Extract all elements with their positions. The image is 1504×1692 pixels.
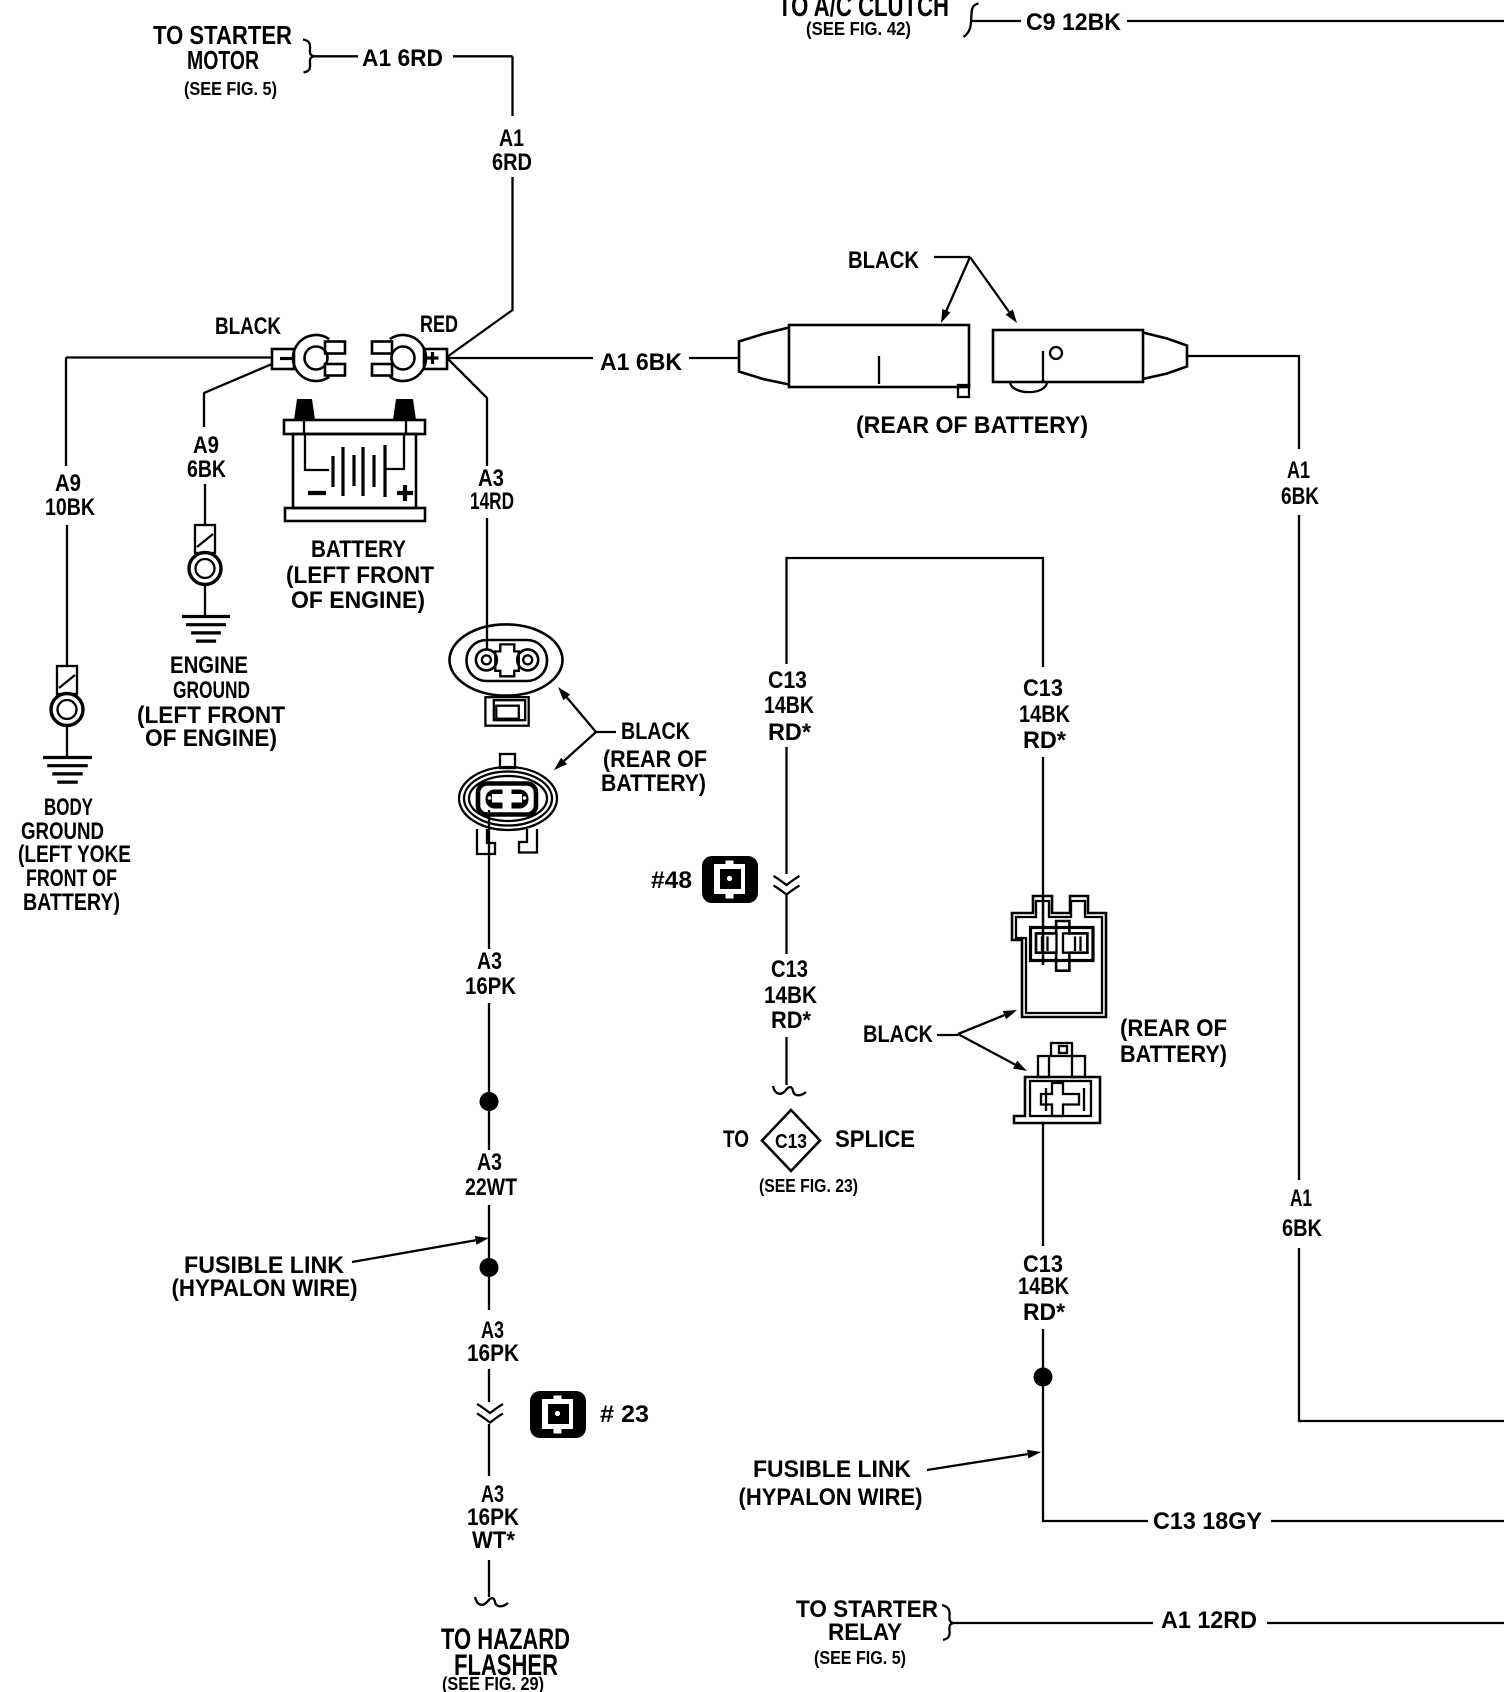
label (REAR OF BATTERY) top	[856, 412, 1088, 439]
oval connector male (rear of battery)	[459, 754, 557, 854]
label BODY GROUND (LEFT YOKE FRONT OF BATTERY)	[18, 794, 131, 916]
wire A3 16PK	[488, 810, 490, 1150]
ground engine	[182, 617, 230, 642]
ring terminal body ground	[51, 666, 83, 726]
svg-text:(HYPALON WIRE): (HYPALON WIRE)	[172, 1275, 358, 1302]
label A1 6BK	[600, 349, 683, 376]
svg-text:(SEE FIG. 42): (SEE FIG. 42)	[806, 19, 911, 39]
wire C13 right vertical	[1042, 757, 1044, 965]
label A3 16PK WT*	[467, 1481, 520, 1554]
label C9 12BK	[1026, 9, 1122, 36]
svg-text:SPLICE: SPLICE	[835, 1126, 915, 1153]
junction splice dot A3	[480, 1092, 499, 1111]
wire into oval connector	[486, 560, 488, 650]
svg-text:BODY: BODY	[44, 794, 93, 821]
svg-text:FRONT OF: FRONT OF	[26, 865, 117, 892]
label A1 6BK right lower	[1282, 1185, 1323, 1242]
label BATTERY (LEFT FRONT OF ENGINE)	[286, 536, 434, 614]
svg-text:ENGINE: ENGINE	[170, 652, 248, 679]
svg-text:BLACK: BLACK	[215, 313, 282, 340]
svg-text:RD*: RD*	[768, 719, 812, 746]
wire to hazard flasher	[488, 1560, 490, 1597]
svg-text:BATTERY: BATTERY	[311, 536, 406, 563]
label A3 16PK	[465, 948, 517, 1000]
battery negative post	[393, 399, 416, 420]
svg-text:A9: A9	[55, 470, 81, 497]
svg-text:C9 12BK: C9 12BK	[1026, 9, 1122, 36]
svg-text:A1 12RD: A1 12RD	[1161, 1607, 1257, 1634]
svg-text:14BK: 14BK	[1019, 701, 1071, 728]
svg-text:(REAR OF: (REAR OF	[603, 746, 707, 773]
wire break chevrons C13	[774, 876, 800, 895]
svg-text:14BK: 14BK	[764, 692, 815, 719]
label A1 6BK right upper	[1281, 457, 1320, 510]
junction splice dot fusible link	[480, 1258, 499, 1277]
battery positive post	[294, 399, 315, 420]
svg-text:A3: A3	[477, 1149, 502, 1176]
svg-text:6RD: 6RD	[492, 149, 532, 176]
label TO STARTER RELAY (see fig. 5)	[796, 1596, 938, 1668]
wire C13 horseshoe top	[787, 558, 1044, 667]
brace to A/C clutch	[964, 4, 1022, 38]
wire A9 6BK diagonal	[204, 364, 272, 525]
svg-text:GROUND: GROUND	[173, 677, 250, 704]
label C13 14BK RD* lower right	[1018, 1251, 1070, 1326]
square connector lower (rear of battery)	[1014, 1043, 1100, 1123]
label # 23	[600, 1401, 649, 1428]
label A9 6BK	[187, 432, 227, 483]
label SPLICE	[835, 1126, 915, 1153]
label A3 14RD	[470, 465, 514, 515]
svg-text:RD*: RD*	[1023, 1299, 1066, 1326]
wire A1 6RD vertical	[447, 56, 513, 357]
svg-text:(LEFT YOKE: (LEFT YOKE	[18, 841, 131, 868]
leader fusible link left	[352, 1236, 489, 1262]
svg-text:C13 18GY: C13 18GY	[1153, 1508, 1262, 1535]
label A3 16PK lower	[467, 1317, 520, 1367]
label (REAR OF BATTERY) right	[1120, 1015, 1227, 1068]
label TO HAZARD FLASHER (see fig. 29)	[441, 1623, 570, 1692]
svg-text:(SEE FIG. 5): (SEE FIG. 5)	[184, 79, 277, 99]
ring terminal engine ground	[189, 525, 221, 585]
wire to body ground	[66, 726, 68, 758]
wire A3 16PK lower	[488, 1369, 490, 1476]
svg-text:C13: C13	[1023, 675, 1063, 702]
label A1 12RD	[1161, 1607, 1257, 1634]
wire A3 14RD	[447, 358, 487, 560]
wire C9 12BK	[1127, 20, 1504, 22]
label C13 18GY	[1153, 1508, 1262, 1535]
label BLACK (right connectors)	[863, 1021, 934, 1048]
label BLACK (REAR OF BATTERY) left	[601, 718, 707, 797]
svg-text:6BK: 6BK	[1282, 1215, 1323, 1242]
svg-text:6BK: 6BK	[1281, 483, 1320, 510]
connector icon #48	[702, 856, 758, 903]
svg-text:(HYPALON WIRE): (HYPALON WIRE)	[739, 1484, 923, 1511]
svg-text:A1: A1	[499, 125, 524, 152]
svg-text:TO: TO	[723, 1126, 749, 1153]
svg-text:BATTERY): BATTERY)	[601, 770, 706, 797]
svg-text:10BK: 10BK	[45, 494, 96, 521]
label RED (positive clamp)	[420, 311, 458, 338]
junction splice dot C13	[1034, 1368, 1053, 1387]
brace to starter relay	[942, 1605, 954, 1640]
svg-text:A1: A1	[1290, 1185, 1312, 1212]
wire A9 10BK horizontal	[66, 356, 272, 358]
label BLACK (negative clamp)	[215, 313, 282, 340]
svg-text:FUSIBLE LINK: FUSIBLE LINK	[753, 1456, 912, 1483]
leader fusible link right	[927, 1450, 1041, 1470]
svg-text:C13: C13	[771, 956, 808, 983]
svg-text:(SEE FIG. 29): (SEE FIG. 29)	[442, 1674, 544, 1692]
ground body	[43, 758, 92, 783]
svg-text:22WT: 22WT	[465, 1174, 517, 1201]
splice symbol C13 diamond	[762, 1110, 820, 1171]
wire A1 6BK from positive clamp	[447, 357, 739, 359]
label A3 22WT	[465, 1149, 517, 1201]
label BLACK (bullet connectors)	[848, 247, 920, 274]
svg-text:BATTERY): BATTERY)	[1120, 1041, 1227, 1068]
svg-text:(REAR OF BATTERY): (REAR OF BATTERY)	[856, 412, 1088, 439]
svg-text:#48: #48	[651, 867, 692, 894]
svg-text:RD*: RD*	[771, 1007, 812, 1034]
break squiggle hazard flasher	[475, 1597, 508, 1606]
wire C13 18GY	[1271, 1520, 1504, 1522]
svg-text:(LEFT FRONT: (LEFT FRONT	[286, 562, 434, 589]
svg-text:BLACK: BLACK	[621, 718, 691, 745]
svg-text:OF ENGINE): OF ENGINE)	[291, 587, 425, 614]
wire C13 left vertical	[785, 747, 787, 954]
negative battery clamp terminal	[272, 335, 345, 381]
label A1 6RD stacked	[492, 125, 532, 176]
oval connector female (rear of battery)	[450, 624, 563, 725]
wire A1 6RD horizontal	[314, 55, 513, 57]
svg-text:A3: A3	[477, 948, 502, 975]
brace to starter motor	[303, 40, 314, 73]
svg-text:(SEE FIG. 5): (SEE FIG. 5)	[814, 1648, 906, 1668]
wire C13 below connector	[1042, 1123, 1044, 1246]
wire A3 22WT	[488, 1205, 490, 1310]
bullet connector male half	[993, 330, 1187, 392]
svg-text:BLACK: BLACK	[863, 1021, 934, 1048]
svg-text:14BK: 14BK	[1018, 1273, 1070, 1300]
leader BLACK to bullet connectors	[934, 257, 1017, 323]
label C13 14BK RD* left	[764, 667, 815, 746]
svg-text:RD*: RD*	[1023, 727, 1067, 754]
leader BLACK to oval connectors	[554, 687, 616, 770]
label A1 6RD	[362, 45, 443, 72]
svg-text:BATTERY): BATTERY)	[23, 889, 120, 916]
svg-text:16PK: 16PK	[465, 973, 517, 1000]
connector icon # 23	[530, 1391, 586, 1438]
svg-text:MOTOR: MOTOR	[187, 45, 259, 75]
svg-text:6BK: 6BK	[187, 456, 227, 483]
bullet connector female half	[739, 325, 969, 397]
svg-text:(SEE FIG. 23): (SEE FIG. 23)	[759, 1176, 858, 1196]
battery minus mark	[308, 491, 326, 495]
break squiggle C13 splice	[773, 1086, 806, 1095]
svg-text:# 23: # 23	[600, 1401, 649, 1428]
label (SEE FIG. 23)	[759, 1176, 858, 1196]
positive battery clamp terminal	[372, 335, 447, 381]
svg-text:A1 6RD: A1 6RD	[362, 45, 443, 72]
svg-text:C13: C13	[775, 1131, 807, 1153]
battery B1 case	[284, 420, 425, 521]
label A9 10BK	[45, 470, 96, 521]
wire to engine ground	[204, 585, 206, 617]
svg-text:14BK: 14BK	[764, 982, 818, 1009]
svg-text:WT*: WT*	[472, 1527, 516, 1554]
wire into square connector	[1042, 896, 1044, 965]
svg-text:A1: A1	[1287, 457, 1310, 484]
svg-text:A9: A9	[193, 432, 219, 459]
wire C13 to splice	[785, 1037, 787, 1085]
label C13 14BK RD* middle	[764, 956, 818, 1034]
svg-text:C13: C13	[768, 667, 807, 694]
svg-text:16PK: 16PK	[467, 1340, 520, 1367]
wire A1 12RD	[954, 1622, 1504, 1624]
leader BLACK to square connectors	[937, 1010, 1027, 1071]
svg-text:OF ENGINE): OF ENGINE)	[145, 725, 277, 752]
label FUSIBLE LINK (HYPALON WIRE) left	[172, 1252, 358, 1302]
label ENGINE GROUND (LEFT FRONT OF ENGINE)	[137, 652, 285, 752]
svg-text:A1 6BK: A1 6BK	[600, 349, 683, 376]
svg-text:14RD: 14RD	[470, 488, 514, 515]
svg-text:BLACK: BLACK	[848, 247, 920, 274]
label TO STARTER MOTOR (see fig. 5)	[153, 20, 292, 99]
svg-text:RED: RED	[420, 311, 458, 338]
wire break chevrons A3	[477, 1404, 503, 1423]
svg-text:(REAR OF: (REAR OF	[1120, 1015, 1227, 1042]
label #48	[651, 867, 692, 894]
battery cell symbol	[305, 434, 404, 497]
label TO A/C CLUTCH (see fig. 42)	[778, 0, 949, 39]
label TO	[723, 1126, 749, 1153]
wire A1 6BK right side	[1187, 356, 1504, 1421]
wire C13 to 18GY corner	[1043, 1329, 1148, 1521]
label C13 14BK RD* right	[1019, 675, 1071, 754]
svg-text:RELAY: RELAY	[828, 1619, 902, 1646]
wire A9 10BK vertical	[66, 358, 67, 667]
square connector upper (rear of battery)	[1012, 896, 1106, 1017]
label FUSIBLE LINK (HYPALON WIRE) right	[739, 1456, 923, 1511]
battery plus mark	[397, 485, 413, 501]
